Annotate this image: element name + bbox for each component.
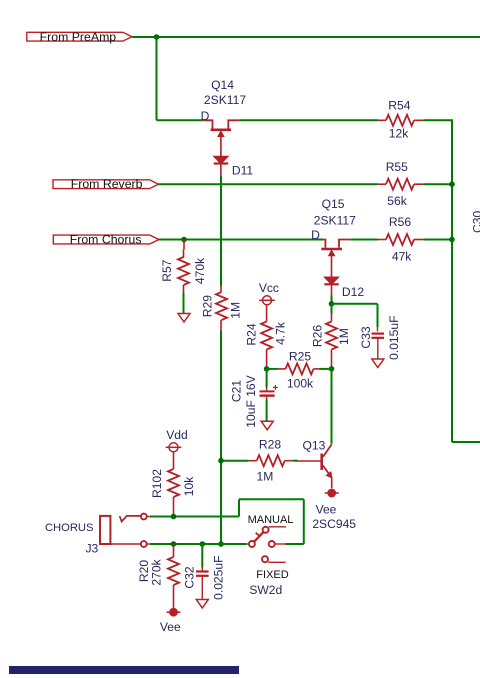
svg-text:1M: 1M bbox=[337, 328, 351, 345]
svg-text:2SC945: 2SC945 bbox=[312, 517, 356, 531]
svg-text:Vee: Vee bbox=[160, 620, 181, 634]
svg-text:R25: R25 bbox=[289, 349, 311, 363]
svg-text:R56: R56 bbox=[389, 215, 411, 229]
svg-text:270k: 270k bbox=[150, 558, 164, 585]
svg-text:Q13: Q13 bbox=[302, 439, 325, 453]
svg-text:SW2d: SW2d bbox=[249, 583, 282, 597]
svg-text:C32: C32 bbox=[183, 566, 197, 588]
svg-text:D: D bbox=[311, 228, 320, 242]
svg-text:C33: C33 bbox=[359, 326, 373, 348]
svg-text:0.025uF: 0.025uF bbox=[211, 556, 225, 600]
svg-text:100k: 100k bbox=[287, 377, 314, 391]
svg-text:12k: 12k bbox=[389, 127, 409, 141]
svg-text:2SK117: 2SK117 bbox=[204, 93, 246, 107]
svg-text:Vcc: Vcc bbox=[259, 281, 279, 295]
svg-text:C30: C30 bbox=[471, 211, 480, 233]
svg-text:2SK117: 2SK117 bbox=[314, 213, 356, 227]
svg-text:From PreAmp: From PreAmp bbox=[40, 30, 117, 44]
svg-text:R54: R54 bbox=[388, 98, 410, 112]
svg-text:47k: 47k bbox=[392, 249, 412, 263]
svg-text:Q15: Q15 bbox=[322, 197, 345, 211]
svg-text:R102: R102 bbox=[150, 469, 164, 498]
svg-text:R57: R57 bbox=[160, 259, 174, 281]
svg-text:R55: R55 bbox=[386, 160, 408, 174]
svg-text:470k: 470k bbox=[193, 257, 207, 284]
svg-text:10k: 10k bbox=[182, 476, 196, 496]
svg-text:D: D bbox=[201, 109, 210, 123]
svg-text:C21: C21 bbox=[229, 380, 243, 402]
svg-text:CHORUS: CHORUS bbox=[45, 522, 93, 534]
svg-text:R24: R24 bbox=[245, 323, 259, 345]
svg-text:10uF 16V: 10uF 16V bbox=[244, 374, 258, 427]
svg-text:4.7k: 4.7k bbox=[274, 321, 288, 345]
svg-text:From Chorus: From Chorus bbox=[70, 232, 142, 246]
svg-text:Q14: Q14 bbox=[211, 78, 234, 92]
svg-text:D11: D11 bbox=[232, 164, 254, 178]
svg-text:R26: R26 bbox=[311, 325, 325, 347]
svg-text:From Reverb: From Reverb bbox=[71, 177, 143, 191]
svg-text:Vee: Vee bbox=[316, 502, 337, 516]
svg-text:D12: D12 bbox=[342, 285, 364, 299]
svg-text:56k: 56k bbox=[387, 194, 407, 208]
svg-text:0.015uF: 0.015uF bbox=[387, 316, 401, 360]
svg-text:1M: 1M bbox=[228, 302, 242, 319]
svg-text:J3: J3 bbox=[86, 542, 99, 556]
svg-text:R29: R29 bbox=[200, 295, 214, 317]
svg-text:R28: R28 bbox=[259, 438, 281, 452]
svg-text:1M: 1M bbox=[256, 470, 273, 484]
svg-text:Vdd: Vdd bbox=[166, 428, 188, 442]
svg-text:MANUAL: MANUAL bbox=[248, 514, 294, 526]
svg-text:FIXED: FIXED bbox=[256, 569, 288, 581]
